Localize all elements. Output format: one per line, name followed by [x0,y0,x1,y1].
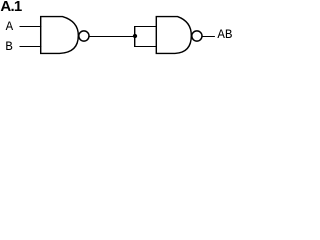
svg-text:B: B [5,40,13,54]
svg-text:A: A [6,20,14,34]
svg-text:AB: AB [217,28,233,42]
svg-text:A.1: A.1 [0,0,22,15]
